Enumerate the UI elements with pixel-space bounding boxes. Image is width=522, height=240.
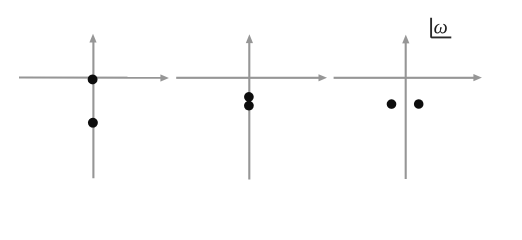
svg-text:ω: ω (434, 17, 448, 39)
angle bracket of the omega label (431, 18, 451, 38)
plot 2 horizontal axis (sigma axis) (176, 77, 321, 79)
plot 3 vertical axis arrowhead (402, 35, 409, 44)
plot 2 horizontal axis arrowhead (319, 74, 328, 81)
plot 2 vertical axis (jw axis) (248, 39, 250, 180)
plot 3 left pole (387, 99, 397, 109)
plot 2 lower pole (double pole pair) (244, 101, 254, 111)
plot 3 horizontal axis arrowhead (473, 74, 482, 81)
plot 1 horizontal axis (sigma axis) (19, 76, 164, 78)
plot 1 horizontal axis arrowhead (160, 74, 169, 81)
plot 3 right pole (414, 99, 424, 109)
plot 1 vertical axis arrowhead (89, 34, 96, 43)
plot 3 horizontal axis (sigma axis) (334, 77, 475, 79)
plot 2 upper pole (double pole pair) (244, 92, 254, 102)
plot 1 pole at origin (88, 74, 98, 84)
plot 1 pole below origin (88, 118, 98, 128)
plot 1 vertical axis (jw axis) (92, 38, 94, 178)
plot 3 vertical axis (jw axis) (405, 39, 407, 179)
plot 2 vertical axis arrowhead (246, 34, 253, 43)
